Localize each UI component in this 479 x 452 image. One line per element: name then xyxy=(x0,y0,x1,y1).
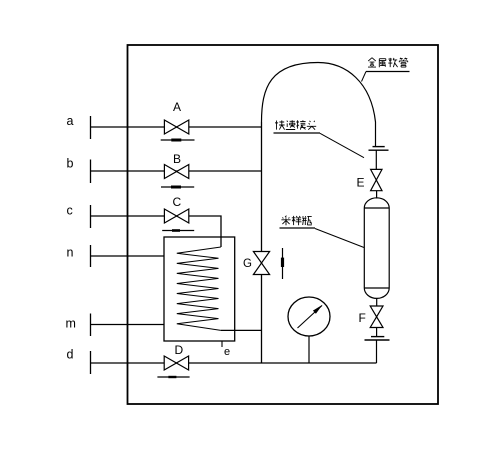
pipe valve E to bottle xyxy=(376,191,378,199)
flow arrow beside G xyxy=(281,248,284,279)
quick connector (bottom) xyxy=(365,337,390,340)
wire n with end tick xyxy=(91,245,165,267)
label 金属软管 (metal hose) xyxy=(368,58,408,67)
svg-text:F: F xyxy=(359,311,366,325)
svg-text:e: e xyxy=(224,346,230,358)
heat exchanger shell e xyxy=(164,237,235,341)
valve C xyxy=(164,209,188,223)
valve F xyxy=(370,306,383,328)
svg-text:b: b xyxy=(67,157,74,171)
svg-text:D: D xyxy=(175,343,184,357)
pipe valve F to connector xyxy=(376,328,378,337)
valve D handle bar xyxy=(157,376,189,378)
svg-text:a: a xyxy=(67,114,74,128)
svg-text:c: c xyxy=(67,204,73,218)
valve C handle bar xyxy=(162,229,194,232)
svg-text:A: A xyxy=(173,100,181,114)
leader to connector xyxy=(320,133,364,157)
pressure gauge xyxy=(288,297,330,363)
node e tick xyxy=(221,342,223,348)
valve G xyxy=(253,252,269,275)
svg-text:d: d xyxy=(67,348,74,362)
frame border xyxy=(128,45,439,404)
valve A handle bar xyxy=(161,139,195,142)
svg-text:m: m xyxy=(66,317,76,331)
wire b with end tick xyxy=(91,160,262,184)
label 金属软管 underline xyxy=(366,71,410,73)
svg-text:G: G xyxy=(243,258,252,270)
svg-text:B: B xyxy=(173,152,181,166)
valve A xyxy=(164,120,188,134)
sample bottle xyxy=(364,198,389,299)
leader to bottle xyxy=(315,229,364,248)
wire m with end tick xyxy=(91,314,165,337)
leader to hose xyxy=(362,72,367,82)
riser pipe xyxy=(261,122,263,363)
coil outlet pipe to riser xyxy=(221,329,262,331)
svg-text:C: C xyxy=(173,195,182,209)
quick connector (top) xyxy=(369,147,389,151)
svg-text:n: n xyxy=(67,246,74,260)
wire a with end tick xyxy=(91,116,262,139)
label 采样瓶 underline xyxy=(280,227,316,229)
pipe connector to drain line xyxy=(376,340,378,363)
svg-text:E: E xyxy=(357,176,365,190)
valve E xyxy=(371,169,382,190)
pipe to valve E xyxy=(375,150,377,169)
valve B handle bar xyxy=(161,186,194,189)
label 快速接头 underline xyxy=(274,132,321,134)
wire d with end tick xyxy=(91,351,377,374)
valve B xyxy=(164,165,188,179)
metal hose arc xyxy=(262,63,376,147)
valve D xyxy=(164,356,188,370)
wire c with end tick xyxy=(91,205,222,247)
pipe bottle to valve F xyxy=(376,299,378,307)
label 采样瓶 (sample bottle) xyxy=(281,216,311,226)
heat exchanger coil xyxy=(177,247,221,330)
label 快速接头 (quick coupling) xyxy=(275,120,316,129)
